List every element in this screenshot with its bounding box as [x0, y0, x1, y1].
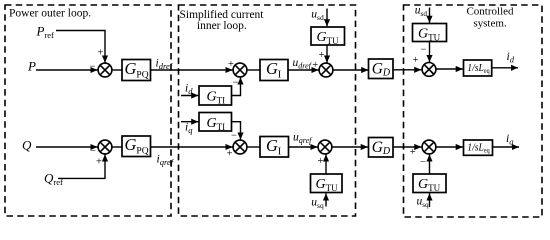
svg-text:−: −: [231, 130, 237, 141]
svg-text:+: +: [319, 50, 325, 61]
svg-text:+: +: [318, 156, 324, 167]
svg-text:+: +: [227, 149, 233, 160]
svg-text:Controlled: Controlled: [466, 6, 514, 18]
svg-text:+: +: [312, 60, 318, 71]
svg-text:+: +: [97, 48, 103, 59]
svg-text:system.: system.: [473, 18, 507, 30]
svg-text:−: −: [421, 45, 427, 56]
svg-text:−: −: [89, 62, 95, 73]
svg-text:+: +: [228, 59, 234, 70]
svg-text:−: −: [420, 157, 426, 168]
svg-text:−: −: [90, 146, 96, 157]
svg-text:+: +: [96, 157, 102, 168]
svg-text:−: −: [232, 78, 238, 89]
svg-text:Power outer loop.: Power outer loop.: [9, 8, 91, 20]
svg-text:inner loop.: inner loop.: [197, 20, 247, 32]
svg-text:+: +: [410, 147, 416, 158]
svg-text:Q: Q: [22, 138, 32, 153]
svg-text:P: P: [27, 59, 36, 74]
svg-text:+: +: [412, 55, 418, 66]
